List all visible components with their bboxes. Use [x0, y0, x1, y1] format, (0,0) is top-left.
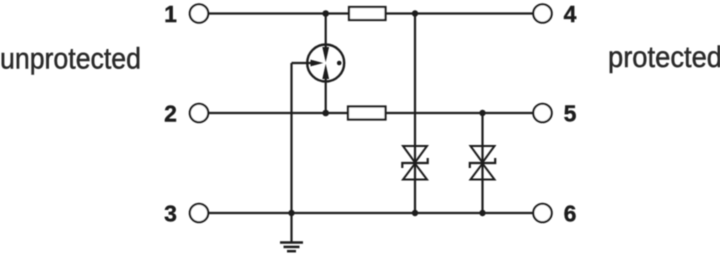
gas discharge tube U1 bottom arrow [322, 64, 329, 79]
suppressor diode D2 zener bar [470, 158, 495, 168]
terminal 4 circle [533, 4, 551, 22]
junction dot line3 / D1 [412, 210, 418, 216]
suppressor diode D1 bottom triangle [403, 164, 427, 180]
wire line1 left (terminal 1 to resistor R1) [209, 12, 349, 14]
resistor R2 [348, 107, 386, 120]
suppressor diode D1 zener bar [402, 158, 427, 168]
gas discharge tube U1 inner dot [337, 61, 342, 66]
terminal 6 circle [533, 204, 551, 222]
suppressor diode D2 bottom triangle [471, 164, 495, 180]
svg-text:6: 6 [564, 201, 577, 227]
wire GDT left electrode horizontal [292, 62, 313, 64]
suppressor diode D1 top triangle [403, 146, 427, 163]
svg-text:5: 5 [564, 101, 577, 127]
wire GDT top electrode (node on line1 into U1) [325, 14, 327, 50]
svg-text:1: 1 [164, 1, 177, 27]
junction dot line1 / GDT [322, 10, 329, 17]
svg-text:3: 3 [164, 201, 177, 227]
terminal 5 circle [533, 104, 551, 122]
terminal 1 circle [190, 4, 208, 22]
wire line3 (terminal 3 to terminal 6) [209, 212, 533, 214]
junction dot line3 / ground branch [288, 210, 294, 216]
gas discharge tube U1 left arrow [311, 60, 324, 67]
junction dot line2 / D2 [479, 110, 485, 116]
wire diode column D2 (line2 down to line3) [481, 113, 483, 213]
gas discharge tube U1 circle [307, 45, 344, 82]
wire line2 left (terminal 2 to resistor R2) [209, 112, 348, 114]
junction dot line2 / GDT [322, 110, 329, 117]
svg-text:4: 4 [564, 1, 577, 27]
suppressor diode D2 top triangle [471, 146, 495, 163]
junction dot line3 / D2 [479, 210, 485, 216]
wire diode column D1 (line1 down to line3) [414, 14, 416, 214]
svg-text:protected: protected [608, 41, 720, 74]
terminal 3 circle [190, 204, 208, 222]
terminal 2 circle [190, 104, 208, 122]
junction dot line1 / D1 [412, 10, 418, 16]
wire ground branch vertical (GDT center electrode down to line3) [290, 63, 292, 213]
wire line1 right (resistor R1 to terminal 4) [386, 12, 533, 14]
svg-text:2: 2 [164, 101, 177, 127]
svg-text:unprotected: unprotected [0, 43, 141, 76]
ground symbol [280, 213, 303, 251]
resistor R1 [349, 7, 386, 20]
wire line2 right (resistor R2 to terminal 5) [386, 112, 533, 114]
wire GDT bottom electrode (node on line2 into U1) [325, 78, 327, 114]
gas discharge tube U1 top arrow [322, 47, 329, 62]
